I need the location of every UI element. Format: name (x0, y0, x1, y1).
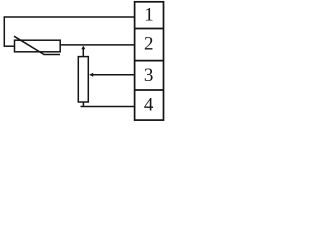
svg-text:1: 1 (144, 5, 154, 26)
thermistor diagonal stroke (14, 36, 44, 54)
wire potentiometer bottom lead (82, 102, 84, 107)
terminal divider between pin 1 and pin 2 (135, 28, 164, 30)
svg-text:4: 4 (144, 94, 154, 115)
potentiometer wiper arrow wire to terminal 3 (89, 73, 135, 77)
potentiometer top lead with up arrowhead (81, 46, 85, 57)
potentiometer RP body (78, 57, 88, 102)
terminal divider between pin 3 and pin 4 (135, 89, 164, 91)
terminal block J1 outline (135, 2, 164, 120)
wire left vertical down to thermistor (3, 16, 5, 46)
terminal divider between pin 2 and pin 3 (135, 60, 164, 62)
thermistor diagonal foot (44, 54, 61, 56)
wire thermistor left lead (4, 45, 15, 47)
svg-text:2: 2 (144, 34, 154, 55)
wire from terminal 1 to top-left corner (4, 16, 134, 18)
wire thermistor to terminal 2 (60, 44, 134, 46)
svg-text:3: 3 (144, 65, 154, 86)
wire potentiometer bottom to terminal 4 (81, 106, 135, 108)
thermistor RT body (15, 40, 61, 52)
